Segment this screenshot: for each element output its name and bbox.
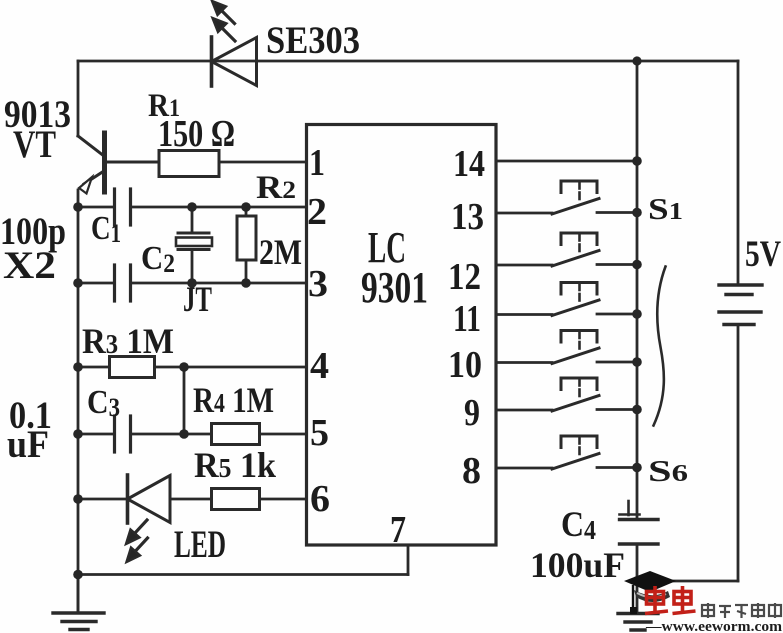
switch S6 — [496, 436, 637, 469]
switch S2 — [496, 233, 637, 266]
wire: right bus vertical — [636, 61, 639, 519]
node: crystal top — [187, 202, 197, 212]
switch S5 — [496, 378, 637, 411]
svg-text:11: 11 — [453, 298, 481, 340]
svg-text:C2: C2 — [141, 240, 175, 278]
node: C4 bottom — [632, 576, 642, 586]
wire: left bus emitter down to ground — [77, 207, 80, 613]
watermark: graduation cap logo — [624, 571, 676, 614]
svg-text:JT: JT — [183, 279, 212, 319]
svg-text:5: 5 — [310, 412, 329, 454]
node: S6 / bus — [632, 463, 642, 473]
svg-text:4: 4 — [310, 345, 329, 387]
node: emitter / C1 — [73, 202, 83, 212]
node dots — [73, 56, 642, 585]
node: R3/R4 bottom — [179, 429, 189, 439]
node: R2 top — [241, 202, 251, 212]
svg-text:13: 13 — [451, 196, 484, 238]
svg-text:S1: S1 — [648, 191, 683, 226]
svg-text:9: 9 — [464, 392, 480, 434]
svg-text:LED: LED — [174, 523, 226, 566]
svg-text:14: 14 — [453, 143, 485, 185]
svg-text:X2: X2 — [3, 244, 56, 287]
node: S5 / bus — [632, 405, 642, 415]
capacitor C1 — [78, 189, 307, 225]
svg-text:7: 7 — [390, 509, 406, 551]
node: left bus bottom rail — [73, 570, 83, 580]
svg-text:2M: 2M — [259, 232, 302, 272]
capacitor C3 — [78, 416, 184, 452]
LED visible indicator diode — [78, 475, 212, 562]
resistor R5 — [212, 489, 307, 510]
svg-text:R5 1k: R5 1k — [194, 445, 276, 485]
crystal JT — [176, 207, 212, 283]
node: S4 / bus — [632, 357, 642, 367]
svg-text:10: 10 — [448, 344, 482, 386]
node: left bus LED — [73, 494, 83, 504]
transistor VT 9013 — [78, 133, 159, 207]
svg-text:R2: R2 — [256, 170, 296, 206]
svg-text:2: 2 — [307, 191, 327, 233]
svg-text:8: 8 — [462, 450, 481, 492]
IC LC9301 — [307, 125, 497, 546]
svg-text:uF: uF — [7, 423, 49, 466]
svg-text:6: 6 — [310, 478, 330, 520]
svg-text:—www.eeworm.com: —www.eeworm.com — [645, 619, 783, 633]
svg-text:100uF: 100uF — [530, 545, 625, 585]
svg-text:C1: C1 — [91, 210, 121, 248]
svg-text:150 Ω: 150 Ω — [158, 113, 235, 155]
ground: right below C4 — [618, 581, 658, 630]
svg-text:R4 1M: R4 1M — [193, 380, 274, 420]
resistor R1 — [159, 151, 307, 177]
ground: left — [53, 575, 104, 630]
switch S3 — [496, 283, 637, 316]
switch S1 — [496, 181, 637, 214]
node: left bus R3 — [73, 362, 83, 372]
svg-text:1: 1 — [309, 142, 325, 184]
LED SE303 infrared emitting diode — [212, 1, 257, 86]
wire: top rail from transistor collector to battery — [78, 60, 738, 63]
node: S1 / bus — [632, 208, 642, 218]
switch S4 — [496, 331, 637, 364]
node: R2 bottom — [241, 278, 251, 288]
svg-text:3: 3 — [308, 263, 328, 305]
svg-text:5V: 5V — [745, 234, 781, 275]
node: left bus C3 — [73, 429, 83, 439]
node: pin14 / bus — [632, 156, 642, 166]
wire: left drop from top rail to transistor collector — [77, 61, 80, 136]
wire: pin 7 stub to bottom rail — [78, 545, 408, 575]
resistor R4 — [184, 424, 307, 445]
resistor R3 — [78, 357, 307, 378]
node: left bus C2 — [73, 278, 83, 288]
node: S3 / bus — [632, 309, 642, 319]
svg-text:C3: C3 — [87, 384, 120, 422]
wire: pin 14 to bus — [496, 160, 637, 163]
node: top rail / bus — [632, 56, 641, 65]
svg-text:S6: S6 — [648, 453, 688, 488]
brace: S1..S6 continuation curve — [654, 267, 666, 426]
node: R3/R4 top — [179, 362, 189, 372]
battery 5V — [719, 61, 762, 581]
resistor R2 — [237, 207, 256, 283]
svg-text:R3 1M: R3 1M — [82, 321, 174, 361]
wire: C4 bottom to battery negative — [637, 580, 738, 583]
node: crystal bottom — [187, 278, 197, 288]
svg-text:9301: 9301 — [361, 263, 428, 312]
svg-text:VT: VT — [13, 123, 56, 166]
watermark: gray chinese site name — [702, 603, 781, 618]
node: S2 / bus — [632, 260, 642, 270]
wire: R3/R4 junction vertical — [183, 367, 186, 434]
capacitor C4 polarized — [620, 501, 659, 581]
svg-text:C4: C4 — [561, 504, 596, 545]
svg-text:SE303: SE303 — [266, 19, 360, 62]
watermark: red chinese characters — [645, 586, 696, 614]
capacitor C2 — [78, 265, 307, 301]
svg-text:12: 12 — [448, 256, 481, 298]
